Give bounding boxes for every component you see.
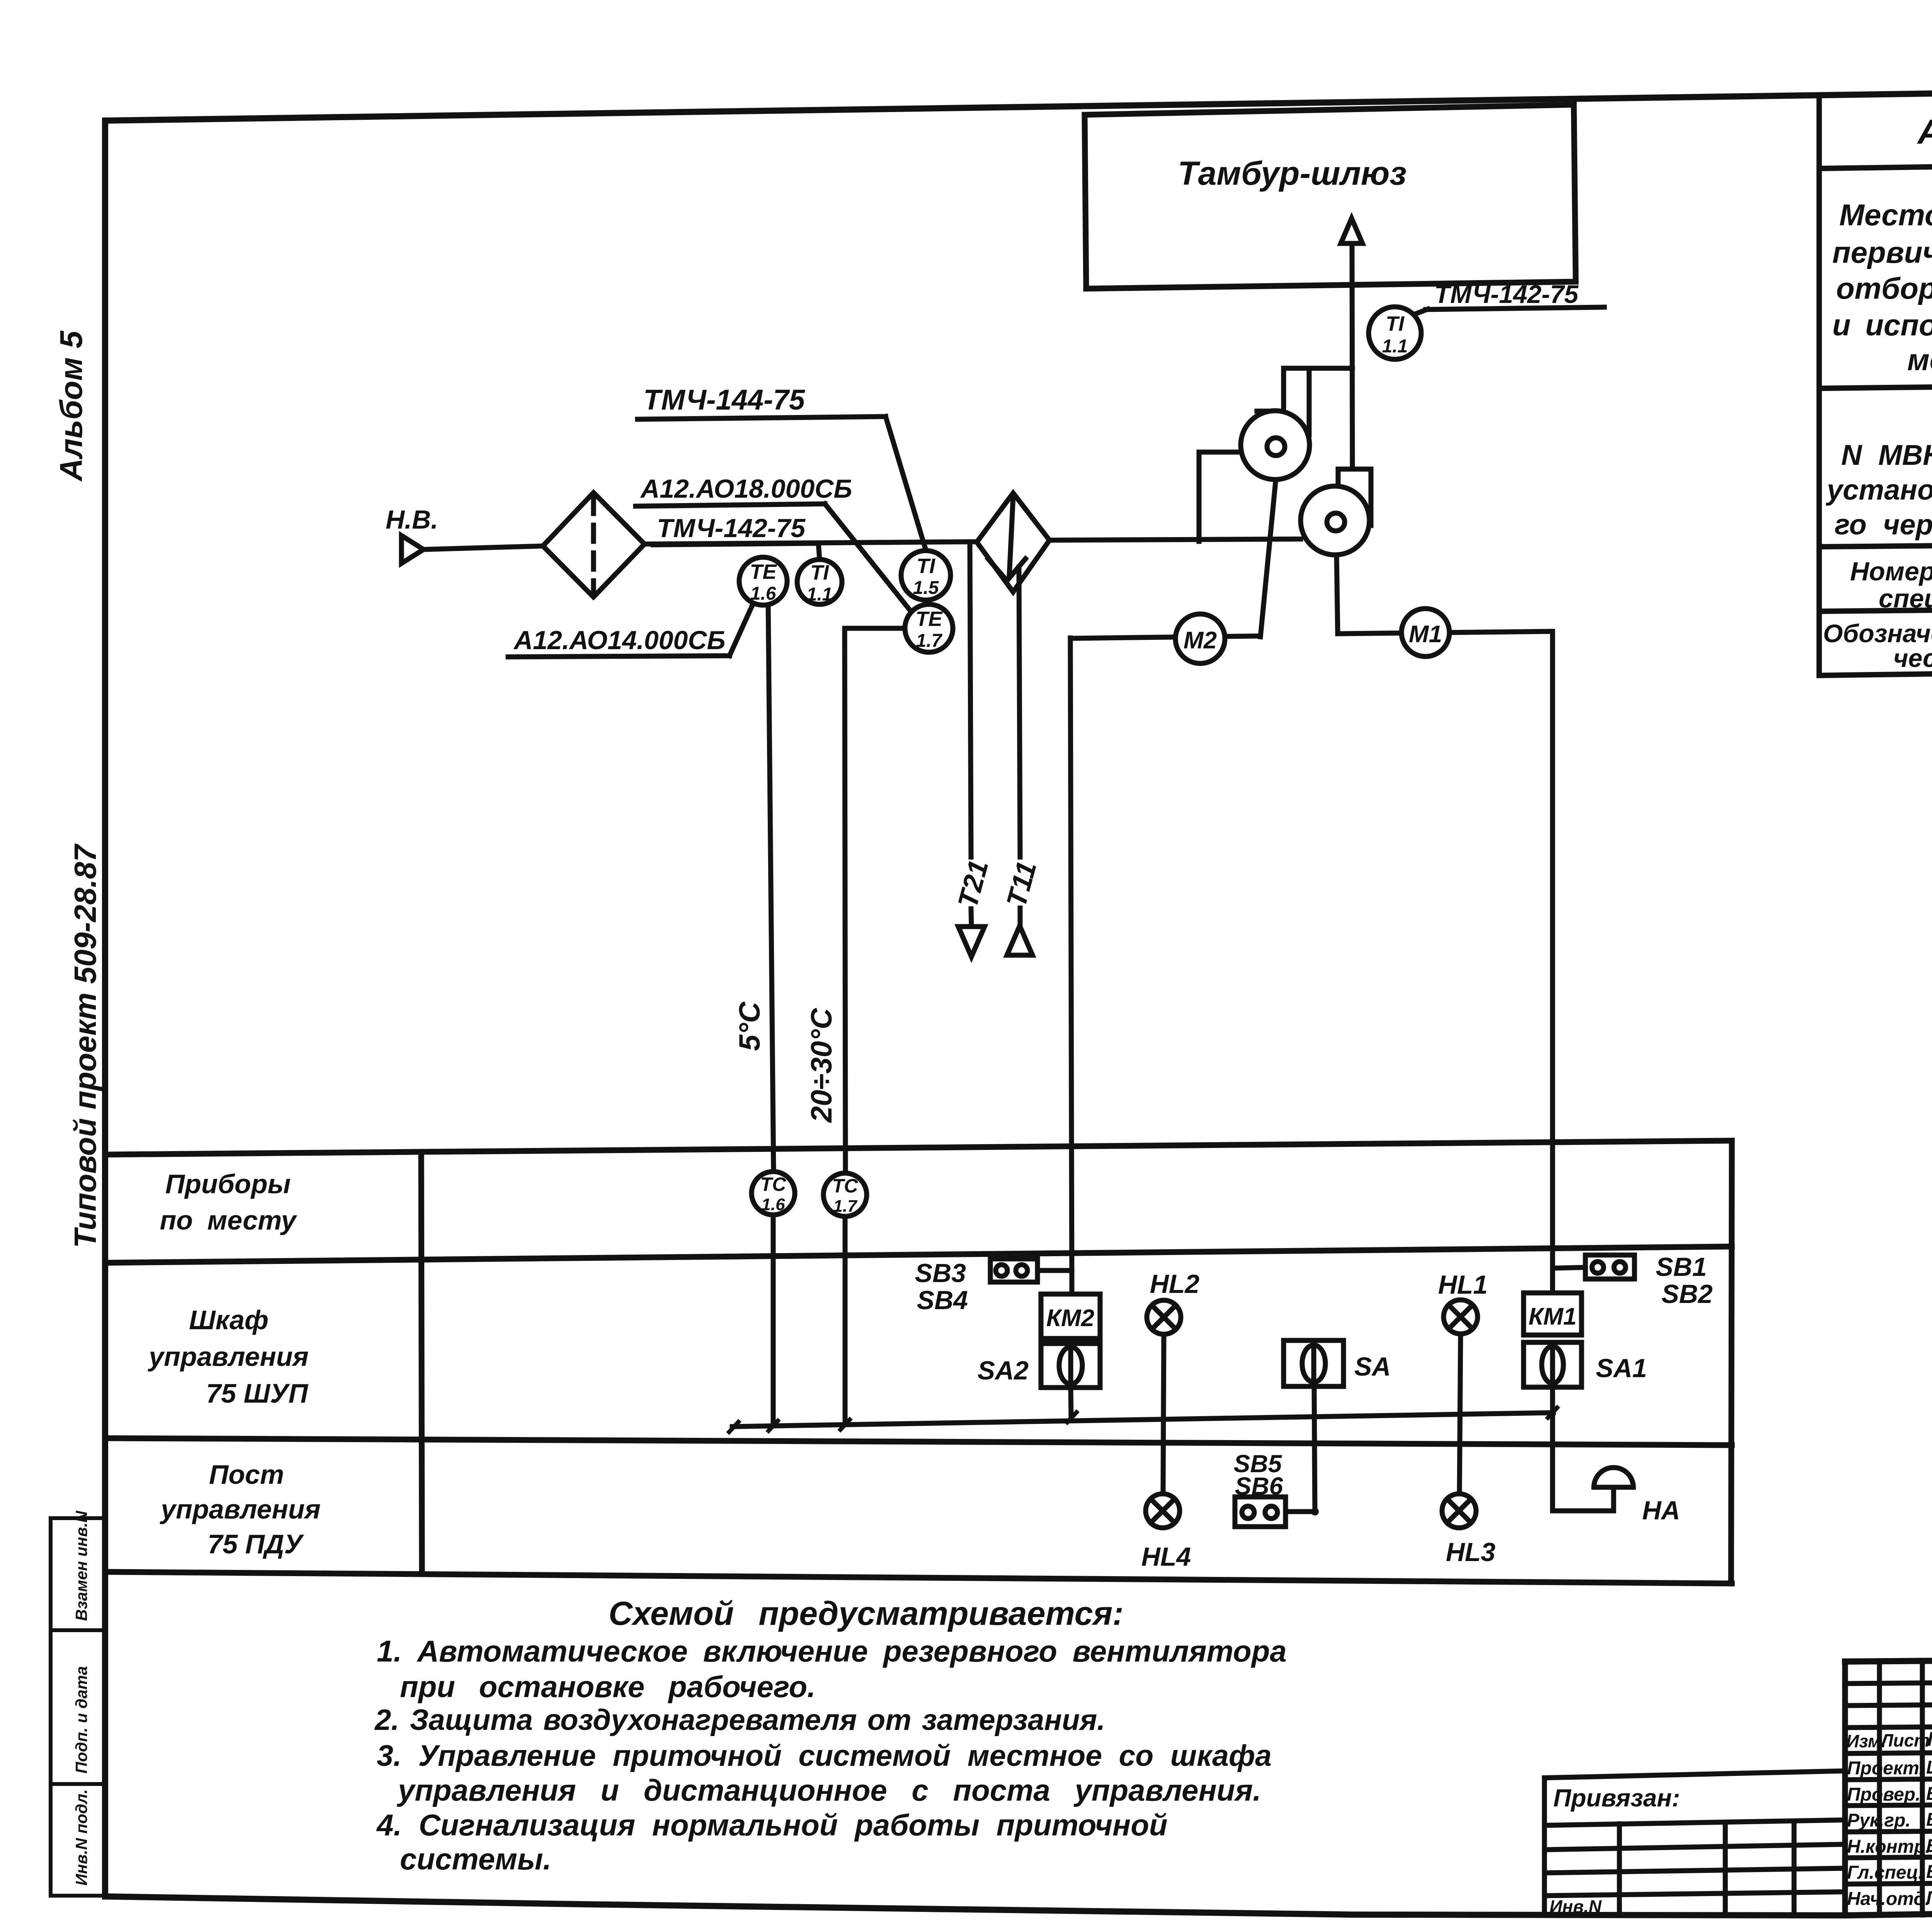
svg-text:механизмов: механизмов: [1907, 343, 1932, 377]
box tambur-shluz: [1085, 105, 1576, 289]
band right edge: [1731, 1141, 1732, 1583]
table row3 bottom: [1819, 539, 1932, 547]
instrument TI 1.1 top: [1369, 307, 1421, 359]
pipe T21: [970, 542, 971, 857]
svg-text:SВ2: SВ2: [1662, 1279, 1713, 1309]
junction ticks: [729, 1422, 738, 1432]
lamp HL3: [1442, 1494, 1476, 1528]
svg-text:Обозначение по электри-: Обозначение по электри-: [1823, 619, 1932, 648]
svg-text:системы.: системы.: [400, 1842, 551, 1876]
svg-text:Схемой предусматривается:: Схемой предусматривается:: [609, 1595, 1124, 1632]
svg-text:Место установки: Место установки: [1839, 198, 1932, 232]
svg-text:управления: управления: [148, 1342, 308, 1372]
svg-text:75 ПДУ: 75 ПДУ: [207, 1529, 304, 1559]
svg-text:ТЕ: ТЕ: [915, 607, 943, 631]
svg-text:1.5: 1.5: [913, 578, 939, 598]
fan B2 volute: [1338, 469, 1371, 526]
table row2 bottom: [1819, 379, 1932, 388]
instrument TI 1.1: [797, 560, 842, 604]
wire common bus: [732, 1413, 1553, 1427]
contactor KM2: [1041, 1294, 1100, 1338]
svg-text:ТС: ТС: [760, 1173, 787, 1195]
svg-text:Изм.: Изм.: [1846, 1731, 1886, 1751]
bell HA: [1553, 1509, 1614, 1514]
svg-text:SА2: SА2: [978, 1356, 1029, 1385]
wire fan1 to M2: [1260, 478, 1276, 637]
svg-text:75 ШУП: 75 ШУП: [206, 1378, 308, 1408]
svg-text:и исполнительных: и исполнительных: [1832, 308, 1932, 342]
svg-text:Провер.: Провер.: [1847, 1784, 1920, 1805]
wire TC16 drop: [771, 1215, 776, 1426]
table bottom: [1819, 664, 1932, 675]
svg-text:2. Защита воздухонагревателя: 2. Защита воздухонагревателя от затерзан…: [374, 1704, 1105, 1736]
svg-text:ТI: ТI: [810, 561, 829, 584]
svg-text:ТЕ: ТЕ: [750, 560, 777, 583]
svg-text:Подп. и дата: Подп. и дата: [72, 1666, 90, 1774]
svg-text:4. Сигнализация нормальной р: 4. Сигнализация нормальной работы приточ…: [376, 1808, 1168, 1842]
svg-text:управления: управления: [160, 1494, 320, 1524]
junction SB56: [1311, 1508, 1319, 1515]
sheet top border: [107, 82, 1932, 121]
svg-text:SВ6: SВ6: [1235, 1472, 1283, 1500]
wire KM2 drop: [1070, 638, 1072, 1294]
wire KM1 drop: [1550, 631, 1555, 1293]
svg-text:Взамен инв.N: Взамен инв.N: [72, 1510, 90, 1621]
wire M1 horizontal: [1338, 631, 1553, 634]
svg-text:НА: НА: [1642, 1496, 1680, 1525]
svg-text:1.1: 1.1: [1382, 336, 1408, 357]
button SB5 SB6: [1235, 1497, 1286, 1527]
band line4: [105, 1572, 1732, 1583]
svg-text:HL3: HL3: [1446, 1537, 1496, 1567]
lamp HL2: [1163, 1334, 1164, 1494]
leader TM4-142-75 top: [1416, 309, 1428, 314]
svg-text:Инв.N подл.: Инв.N подл.: [72, 1789, 90, 1886]
svg-text:HL2: HL2: [1150, 1269, 1200, 1299]
switch SA2: [1041, 1344, 1100, 1388]
svg-text:Рук.гр.: Рук.гр.: [1847, 1810, 1911, 1831]
instrument TC 1.7: [823, 1173, 867, 1216]
svg-text:Типовой проект 509-28.87: Типовой проект 509-28.87: [68, 843, 102, 1248]
svg-text:М1: М1: [1409, 621, 1442, 648]
table outer left: [1816, 95, 1822, 675]
wire M2 horizontal: [1070, 636, 1259, 638]
svg-text:А12.АО14.000СБ: А12.АО14.000СБ: [513, 626, 726, 655]
contactor KM1: [1524, 1293, 1582, 1335]
band line2: [105, 1247, 1732, 1263]
svg-text:SВ4: SВ4: [917, 1286, 968, 1315]
instrument TE 1.6: [739, 557, 787, 605]
svg-text:установочно-: установочно-: [1825, 474, 1932, 506]
sheet left border: [102, 121, 108, 1896]
svg-text:ческой схеме: ческой схеме: [1893, 644, 1932, 672]
svg-text:1.6: 1.6: [761, 1195, 785, 1214]
svg-text:КМ2: КМ2: [1046, 1305, 1094, 1332]
leader TM4-144-75: [638, 417, 886, 419]
stamp revision rows: [1845, 1681, 1932, 1684]
node HB intake arrow: [401, 536, 423, 563]
svg-text:Привязан:: Привязан:: [1553, 1784, 1680, 1812]
svg-text:20÷30°С: 20÷30°С: [805, 1008, 838, 1123]
svg-text:по месту: по месту: [160, 1205, 298, 1235]
lamp HL1: [1459, 1334, 1461, 1494]
privyazan box: [1544, 1771, 1845, 1778]
svg-text:1.7: 1.7: [833, 1197, 858, 1216]
lamp HL4: [1146, 1494, 1180, 1528]
wire TE1.6 drop: [768, 603, 774, 1172]
svg-text:Лист: Лист: [1880, 1730, 1930, 1750]
switch SA: [1314, 1386, 1315, 1512]
svg-text:1.7: 1.7: [916, 631, 943, 651]
svg-text:1.1: 1.1: [807, 584, 833, 605]
left stamp box 3: [51, 1784, 105, 1896]
svg-text:Агрегат П6: Агрегат П6: [1917, 113, 1932, 151]
svg-text:отборных устройств: отборных устройств: [1836, 271, 1932, 305]
band line3: [105, 1438, 1732, 1445]
svg-text:N докум.: N докум.: [1927, 1728, 1932, 1750]
svg-text:HL4: HL4: [1141, 1542, 1191, 1571]
svg-text:5°С: 5°С: [733, 1001, 766, 1051]
sheet bottom border: [105, 1896, 1932, 1915]
wire TE1.7 drop: [845, 626, 905, 631]
svg-text:1. Автоматическое включение: 1. Автоматическое включение резервного в…: [377, 1634, 1287, 1668]
svg-text:первичных приборов,: первичных приборов,: [1832, 235, 1932, 269]
arrow into box: [1341, 218, 1362, 243]
svg-text:HL1: HL1: [1438, 1270, 1488, 1299]
svg-text:Тамбур-шлюз: Тамбур-шлюз: [1178, 155, 1406, 192]
svg-text:SВ3: SВ3: [915, 1259, 966, 1288]
leader A12.AO18.000SB: [636, 504, 825, 506]
button SB3 SB4: [990, 1259, 1037, 1282]
svg-text:Номер позиции по: Номер позиции по: [1850, 557, 1932, 586]
svg-text:КМ1: КМ1: [1529, 1303, 1577, 1330]
instrument TC 1.6: [752, 1172, 795, 1215]
svg-text:Альбом 5: Альбом 5: [54, 330, 89, 482]
duct riser: [1352, 243, 1352, 469]
svg-text:Волкова: Волкова: [1926, 1810, 1932, 1830]
leader A12.AO14.000SB: [508, 656, 730, 657]
svg-text:ТС: ТС: [832, 1175, 859, 1197]
svg-text:Вастровский: Вастровский: [1926, 1836, 1932, 1856]
svg-text:Приборы: Приборы: [165, 1169, 291, 1199]
switch SA1: [1524, 1342, 1582, 1387]
svg-text:Н.контр.: Н.контр.: [1847, 1837, 1930, 1857]
svg-text:3. Управление приточной сист: 3. Управление приточной системой местное…: [377, 1739, 1272, 1772]
svg-text:Голодник: Голодник: [1926, 1888, 1932, 1908]
svg-text:ТI: ТI: [1386, 312, 1405, 335]
left stamp box 2: [51, 1630, 105, 1784]
svg-text:ТМЧ-142-75: ТМЧ-142-75: [657, 514, 806, 543]
table row4 bottom: [1819, 603, 1932, 611]
duct fan1 inlet branch: [1197, 452, 1202, 541]
svg-text:при остановке рабочего.: при остановке рабочего.: [400, 1670, 816, 1704]
svg-text:ТI: ТI: [917, 554, 935, 578]
band line1: [105, 1141, 1732, 1155]
stamp left verticals: [1877, 1661, 1882, 1915]
wire duct main: [423, 546, 543, 549]
duct fan1 outlet jog: [1284, 366, 1352, 371]
svg-text:N МВН или: N МВН или: [1841, 439, 1932, 471]
fan B2: [1301, 486, 1369, 555]
svg-text:Проект.: Проект.: [1847, 1758, 1924, 1779]
svg-text:спецификации: спецификации: [1879, 584, 1932, 613]
svg-text:ТМЧ-142-75: ТМЧ-142-75: [1434, 280, 1579, 308]
svg-text:SА1: SА1: [1596, 1354, 1647, 1383]
svg-text:SА: SА: [1354, 1352, 1391, 1381]
svg-text:Вазбровский: Вазбровский: [1926, 1862, 1932, 1882]
svg-text:Н.В.: Н.В.: [386, 505, 438, 534]
wire TC17 drop: [843, 1216, 848, 1425]
instrument TI 1.5: [901, 551, 951, 600]
wire fan2 to M1: [1337, 555, 1338, 634]
svg-text:Шатковская: Шатковская: [1926, 1757, 1932, 1778]
leader TM4-142-75: [653, 543, 818, 545]
svg-text:Инв.N: Инв.N: [1549, 1896, 1602, 1917]
svg-text:ТМЧ-144-75: ТМЧ-144-75: [643, 384, 806, 416]
button SB1 SB2: [1585, 1255, 1634, 1279]
pipe T11: [1019, 567, 1020, 857]
svg-text:управления и дистанционное: управления и дистанционное с поста управ…: [396, 1773, 1261, 1807]
svg-text:Пост: Пост: [209, 1459, 284, 1490]
fan B1: [1241, 411, 1310, 480]
svg-text:Волкова: Волкова: [1926, 1784, 1932, 1804]
svg-text:го чертежа: го чертежа: [1835, 509, 1932, 541]
svg-text:Нач.отд.: Нач.отд.: [1847, 1889, 1930, 1909]
motor M2: [1175, 614, 1225, 663]
svg-text:1.6: 1.6: [750, 583, 776, 604]
svg-text:Шкаф: Шкаф: [189, 1305, 269, 1335]
svg-text:А12.АО18.000СБ: А12.АО18.000СБ: [640, 474, 852, 503]
left stamp box 1: [51, 1518, 105, 1630]
motor M1: [1401, 609, 1449, 656]
heater K1 diamond: [977, 493, 1049, 592]
band column separator: [421, 1152, 422, 1573]
svg-text:SВ1: SВ1: [1656, 1252, 1707, 1282]
svg-text:М2: М2: [1184, 627, 1217, 654]
stamp outer: [1845, 1655, 1932, 1662]
table header bottom: [1819, 156, 1932, 168]
svg-text:Гл.спец.: Гл.спец.: [1847, 1862, 1923, 1883]
instrument TE 1.7: [905, 604, 953, 652]
filter F1 diamond: [543, 493, 645, 597]
